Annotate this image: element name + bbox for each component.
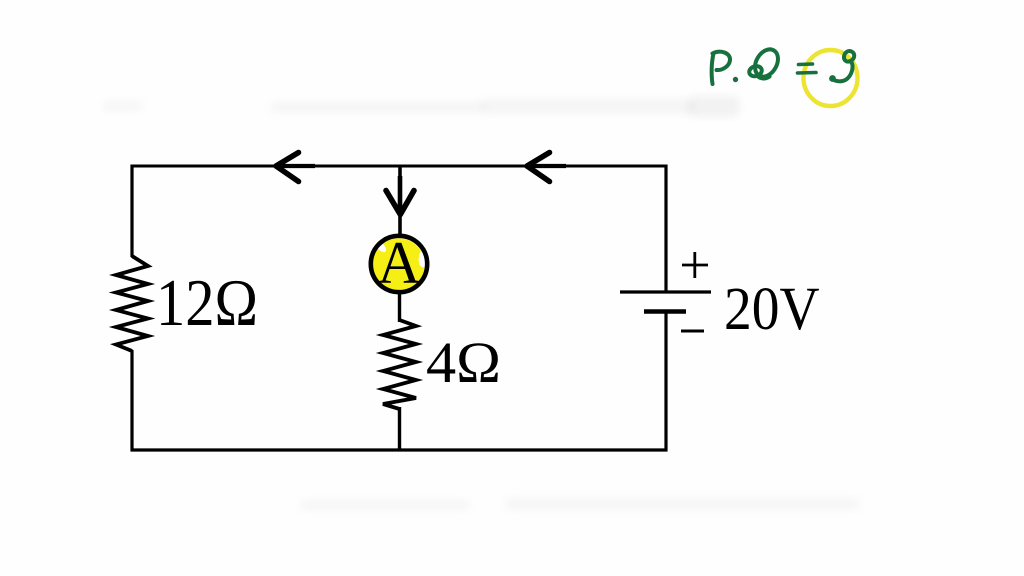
ammeter A (yellow highlighted circle) [371,230,432,296]
wire resistor 4ohm to bottom node [398,407,401,451]
yellow highlight circle around question mark [804,50,858,106]
annotation: green handwriting P.D = ? [712,45,855,84]
letter D tail join [758,76,770,79]
letter D big loop [750,45,782,80]
letter D small loop [748,65,763,78]
wire left side top [130,165,133,258]
resistor R2 4ohm (middle branch zigzag) [383,320,416,409]
plus sign [682,252,708,278]
svg-text:20V: 20V [724,276,820,343]
question mark curl [844,51,854,61]
resistor R1 12ohm (left branch zigzag) [116,256,148,351]
current arrow I1 (left-pointing, top wire left) [275,153,315,182]
wire right side top (battery + lead) [664,165,667,293]
wire left side bottom [130,350,133,451]
wire bottom (return node) [131,448,668,451]
svg-text:4Ω: 4Ω [426,330,501,395]
minus sign [681,330,704,333]
current arrow I3 (downward, middle branch) [386,176,414,215]
svg-text:A: A [377,230,420,296]
wire top (node between battery + and resistors) [131,165,668,168]
equals sign [799,62,813,66]
faint whiteboard smudges (decorative) [270,102,485,112]
wire middle branch top (junction to ammeter) [398,166,402,238]
current arrow I2 (left-pointing, top wire right) [526,153,566,182]
battery V1 negative plate (short, thick) [644,309,686,314]
battery V1 positive plate (long) [620,290,711,293]
svg-text:12Ω: 12Ω [156,266,258,340]
wire right side bottom (battery - lead) [664,312,667,451]
letter P stem [712,54,714,85]
letter P bowl [713,52,731,70]
period dot [734,78,737,81]
wire ammeter to resistor 4ohm [398,290,401,322]
